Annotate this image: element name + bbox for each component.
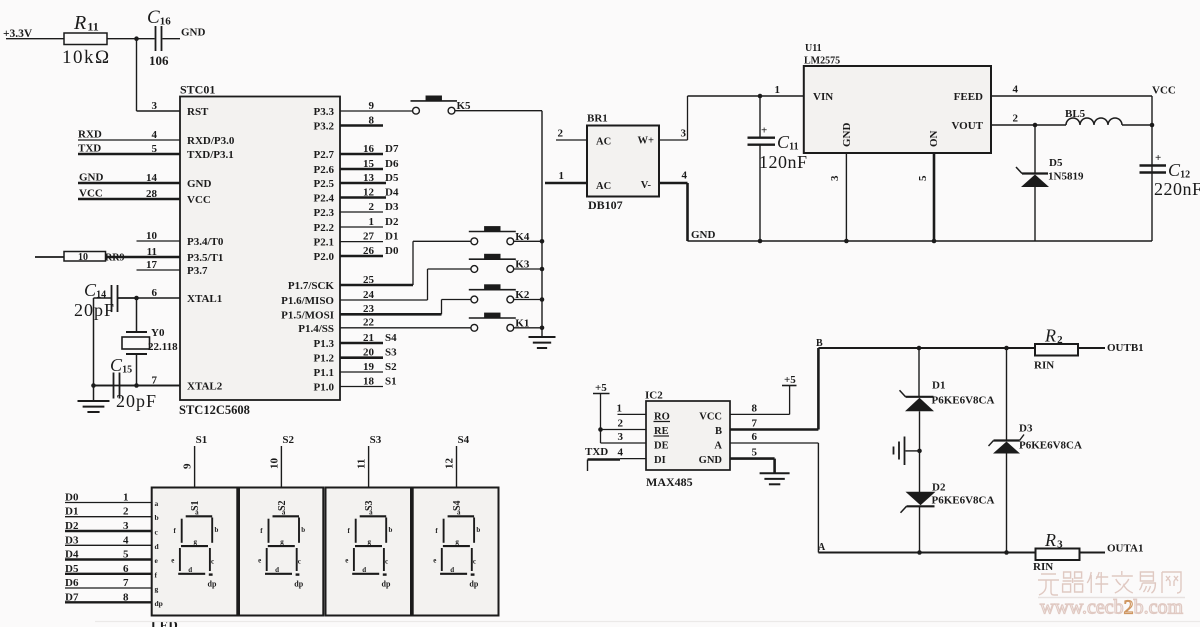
svg-text:D1: D1 [65, 506, 78, 518]
svg-text:OUTA1: OUTA1 [1107, 543, 1143, 555]
svg-text:g: g [280, 538, 284, 546]
svg-text:D2: D2 [385, 216, 399, 228]
svg-text:10: 10 [268, 458, 280, 470]
svg-text:16: 16 [160, 16, 172, 28]
svg-text:+: + [761, 125, 767, 137]
svg-text:P1.7/SCK: P1.7/SCK [288, 280, 335, 292]
svg-text:dp: dp [469, 580, 478, 589]
svg-text:5: 5 [123, 549, 129, 561]
svg-text:b: b [155, 513, 159, 522]
svg-text:2: 2 [558, 128, 564, 140]
svg-text:3: 3 [618, 431, 624, 443]
svg-text:RR9: RR9 [105, 253, 124, 264]
svg-text:P2.6: P2.6 [314, 164, 335, 176]
svg-text:3: 3 [123, 520, 129, 532]
svg-text:A: A [818, 542, 826, 553]
svg-text:27: 27 [363, 230, 375, 242]
svg-text:dp: dp [208, 580, 217, 589]
svg-text:D4: D4 [65, 549, 79, 561]
svg-text:S3: S3 [385, 347, 397, 359]
svg-text:D5: D5 [65, 563, 79, 575]
svg-text:28: 28 [146, 188, 158, 200]
svg-text:D0: D0 [65, 492, 79, 504]
svg-text:3: 3 [1057, 539, 1063, 551]
svg-text:14: 14 [146, 172, 158, 184]
svg-text:XTAL2: XTAL2 [187, 381, 223, 393]
svg-text:D5: D5 [1049, 157, 1063, 169]
svg-text:FEED: FEED [954, 91, 983, 103]
svg-text:U11: U11 [805, 43, 822, 54]
svg-text:C: C [1168, 160, 1181, 180]
svg-text:24: 24 [363, 289, 375, 301]
svg-text:5: 5 [917, 175, 929, 181]
svg-text:19: 19 [363, 361, 375, 373]
svg-text:B: B [715, 426, 722, 437]
svg-text:LM2575: LM2575 [804, 56, 840, 67]
svg-text:13: 13 [363, 172, 375, 184]
svg-text:+: + [1155, 152, 1161, 164]
svg-text:LED: LED [151, 618, 178, 627]
svg-text:P1.3: P1.3 [314, 338, 335, 350]
svg-text:+5: +5 [784, 374, 796, 386]
svg-text:2: 2 [369, 201, 375, 213]
svg-text:DB107: DB107 [588, 198, 623, 212]
svg-text:S4: S4 [458, 434, 470, 446]
svg-text:d: d [275, 566, 279, 574]
svg-text:c: c [211, 557, 214, 565]
svg-text:P2.0: P2.0 [314, 251, 335, 263]
svg-text:P1.6/MISO: P1.6/MISO [281, 295, 334, 307]
svg-text:RXD/P3.0: RXD/P3.0 [187, 135, 235, 147]
svg-text:P1.4/SS: P1.4/SS [298, 323, 334, 335]
svg-text:4: 4 [123, 534, 129, 546]
svg-text:D2: D2 [932, 482, 946, 494]
svg-text:1: 1 [559, 170, 565, 182]
svg-text:dp: dp [155, 599, 163, 608]
svg-text:RXD: RXD [78, 129, 102, 141]
svg-text:10kΩ: 10kΩ [62, 47, 111, 68]
svg-text:S2: S2 [282, 434, 294, 446]
svg-text:P2.7: P2.7 [314, 149, 335, 161]
svg-text:17: 17 [146, 259, 158, 271]
svg-text:g: g [194, 538, 198, 546]
svg-text:20pF: 20pF [116, 391, 157, 411]
svg-text:P6KE6V8CA: P6KE6V8CA [932, 395, 995, 407]
svg-text:1: 1 [123, 492, 129, 504]
svg-text:C: C [147, 7, 160, 28]
svg-text:VIN: VIN [813, 91, 833, 103]
svg-text:a: a [369, 509, 373, 517]
svg-text:A: A [714, 441, 722, 452]
svg-text:g: g [455, 538, 459, 546]
svg-text:4: 4 [1013, 84, 1019, 96]
svg-text:d: d [450, 566, 454, 574]
svg-text:XTAL1: XTAL1 [187, 293, 222, 305]
svg-text:www.cecb2b.com: www.cecb2b.com [1040, 597, 1184, 619]
svg-text:P3.2: P3.2 [314, 121, 335, 133]
svg-text:20: 20 [363, 347, 375, 359]
svg-text:10: 10 [146, 230, 158, 242]
svg-text:P6KE6V8CA: P6KE6V8CA [1019, 440, 1082, 452]
svg-text:P1.1: P1.1 [314, 367, 334, 379]
svg-text:D7: D7 [385, 143, 399, 155]
svg-text:D6: D6 [65, 577, 79, 589]
svg-text:D3: D3 [385, 201, 399, 213]
svg-text:26: 26 [363, 245, 375, 257]
svg-text:OUTB1: OUTB1 [1107, 342, 1144, 354]
svg-text:TXD: TXD [78, 143, 101, 155]
svg-text:S4: S4 [385, 332, 397, 344]
svg-text:a: a [282, 509, 286, 517]
svg-text:e: e [345, 557, 348, 565]
svg-text:1N5819: 1N5819 [1048, 171, 1084, 183]
svg-text:21: 21 [363, 332, 374, 344]
svg-text:RE: RE [654, 426, 669, 437]
svg-text:23: 23 [363, 303, 375, 315]
svg-text:P3.5/T1: P3.5/T1 [187, 252, 223, 264]
svg-text:R: R [1044, 530, 1056, 550]
svg-text:8: 8 [123, 591, 129, 603]
svg-text:P1.2: P1.2 [314, 353, 335, 365]
svg-text:P3.7: P3.7 [187, 265, 208, 277]
svg-text:VOUT: VOUT [951, 120, 983, 132]
svg-text:C: C [110, 355, 123, 375]
svg-text:2: 2 [123, 506, 129, 518]
svg-text:C: C [84, 280, 97, 300]
svg-text:RO: RO [654, 412, 670, 423]
svg-text:R: R [1044, 326, 1056, 346]
svg-text:b: b [301, 526, 305, 534]
svg-text:15: 15 [363, 158, 375, 170]
svg-text:D0: D0 [385, 245, 399, 257]
svg-text:IC2: IC2 [645, 390, 663, 402]
svg-text:STC01: STC01 [180, 83, 215, 97]
svg-text:GND: GND [187, 178, 212, 190]
svg-text:c: c [298, 557, 301, 565]
svg-text:TXD: TXD [585, 446, 608, 458]
svg-text:22.118: 22.118 [148, 341, 178, 353]
svg-text:S1: S1 [196, 434, 208, 446]
svg-text:3: 3 [152, 100, 158, 112]
svg-text:11: 11 [789, 142, 798, 153]
svg-text:c: c [385, 557, 388, 565]
svg-text:GND: GND [691, 229, 716, 241]
svg-text:14: 14 [96, 290, 106, 301]
svg-text:12: 12 [444, 458, 456, 470]
svg-text:AC: AC [596, 137, 611, 148]
svg-text:R: R [73, 12, 86, 34]
svg-text:4: 4 [618, 447, 624, 459]
svg-text:ON: ON [928, 130, 940, 147]
svg-text:GND: GND [79, 172, 104, 184]
svg-text:9: 9 [182, 463, 194, 469]
svg-text:d: d [362, 566, 366, 574]
svg-text:16: 16 [363, 143, 375, 155]
svg-text:18: 18 [363, 375, 375, 387]
svg-text:P1.0: P1.0 [314, 382, 335, 394]
svg-text:P3.4/T0: P3.4/T0 [187, 236, 224, 248]
svg-text:220nF: 220nF [1154, 179, 1200, 199]
svg-text:C: C [777, 132, 790, 152]
svg-text:4: 4 [152, 129, 158, 141]
svg-text:25: 25 [363, 274, 375, 286]
svg-text:W+: W+ [638, 136, 655, 147]
svg-text:GND: GND [181, 27, 206, 39]
svg-text:3: 3 [681, 128, 687, 140]
svg-text:b: b [389, 526, 393, 534]
svg-text:1: 1 [617, 403, 623, 415]
svg-text:D7: D7 [65, 591, 79, 603]
svg-text:5: 5 [152, 143, 158, 155]
svg-text:11: 11 [87, 20, 98, 34]
svg-text:1: 1 [775, 84, 781, 96]
svg-text:D4: D4 [385, 186, 399, 198]
svg-text:VCC: VCC [79, 188, 103, 200]
svg-text:D2: D2 [65, 520, 79, 532]
svg-text:120nF: 120nF [759, 152, 808, 172]
svg-text:D6: D6 [385, 158, 399, 170]
svg-text:RIN: RIN [1033, 561, 1053, 573]
svg-text:D3: D3 [65, 534, 79, 546]
svg-text:8: 8 [369, 114, 375, 126]
svg-text:g: g [368, 538, 372, 546]
svg-text:P3.3: P3.3 [314, 106, 335, 118]
svg-text:e: e [171, 557, 174, 565]
svg-text:6: 6 [752, 431, 758, 443]
svg-text:S1: S1 [385, 375, 397, 387]
svg-text:+5: +5 [595, 382, 607, 394]
svg-text:P6KE6V8CA: P6KE6V8CA [932, 495, 995, 507]
svg-text:11: 11 [147, 246, 157, 258]
svg-text:b: b [476, 526, 480, 534]
svg-text:V-: V- [641, 180, 652, 191]
svg-text:6: 6 [152, 287, 158, 299]
svg-text:D1: D1 [385, 230, 398, 242]
svg-text:dp: dp [382, 580, 391, 589]
svg-text:S2: S2 [385, 361, 397, 373]
svg-text:22: 22 [363, 317, 375, 329]
svg-text:VCC: VCC [187, 194, 211, 206]
svg-text:4: 4 [682, 170, 688, 182]
svg-text:e: e [258, 557, 261, 565]
svg-text:S3: S3 [370, 434, 382, 446]
svg-text:6: 6 [123, 563, 129, 575]
svg-text:3: 3 [829, 175, 841, 181]
svg-text:20pF: 20pF [74, 300, 115, 320]
svg-text:RIN: RIN [1034, 360, 1054, 372]
svg-text:12: 12 [363, 186, 375, 198]
svg-text:MAX485: MAX485 [646, 475, 693, 489]
svg-text:AC: AC [596, 181, 611, 192]
svg-text:P2.1: P2.1 [314, 237, 334, 249]
svg-text:DI: DI [654, 455, 666, 466]
svg-text:dp: dp [294, 580, 303, 589]
svg-text:b: b [215, 526, 219, 534]
svg-text:a: a [155, 499, 159, 508]
svg-text:RST: RST [187, 106, 209, 118]
svg-text:2: 2 [618, 418, 624, 430]
svg-text:8: 8 [752, 403, 758, 415]
svg-text:e: e [433, 557, 436, 565]
svg-text:106: 106 [149, 53, 169, 68]
svg-text:9: 9 [369, 100, 375, 112]
svg-text:2: 2 [1013, 113, 1019, 125]
svg-text:5: 5 [752, 447, 758, 459]
svg-text:BR1: BR1 [587, 113, 608, 125]
svg-text:DE: DE [654, 441, 669, 452]
svg-text:c: c [473, 557, 476, 565]
svg-text:GND: GND [841, 123, 853, 148]
svg-text:11: 11 [356, 459, 368, 469]
svg-text:TXD/P3.1: TXD/P3.1 [187, 149, 234, 161]
svg-text:2: 2 [1057, 334, 1063, 346]
svg-text:VCC: VCC [699, 412, 722, 423]
svg-text:1: 1 [369, 216, 375, 228]
svg-text:P2.3: P2.3 [314, 207, 335, 219]
svg-text:7: 7 [123, 577, 129, 589]
svg-text:Y0: Y0 [151, 327, 165, 339]
svg-text:7: 7 [752, 418, 758, 430]
svg-text:VCC: VCC [1152, 85, 1176, 97]
svg-text:D5: D5 [385, 172, 399, 184]
svg-text:g: g [155, 585, 159, 594]
svg-text:P2.5: P2.5 [314, 178, 335, 190]
svg-text:a: a [195, 509, 199, 517]
svg-text:P2.2: P2.2 [314, 222, 335, 234]
svg-text:STC12C5608: STC12C5608 [179, 403, 250, 417]
svg-text:D3: D3 [1019, 423, 1033, 435]
svg-text:10: 10 [78, 252, 88, 263]
svg-text:P2.4: P2.4 [314, 193, 335, 205]
svg-text:d: d [188, 566, 192, 574]
svg-text:a: a [457, 509, 461, 517]
svg-text:D1: D1 [932, 380, 945, 392]
svg-text:P1.5/MOSI: P1.5/MOSI [281, 309, 334, 321]
svg-text:GND: GND [699, 455, 723, 466]
svg-text:15: 15 [122, 365, 132, 376]
